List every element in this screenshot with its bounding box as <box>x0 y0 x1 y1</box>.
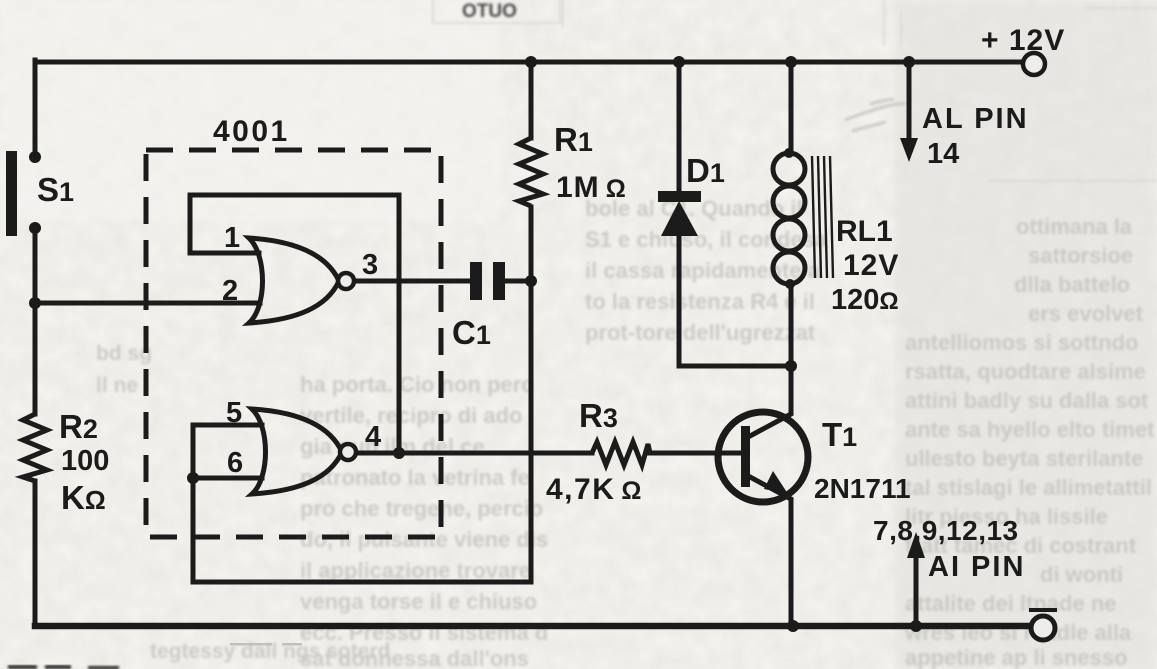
node RL1 top <box>785 56 797 68</box>
svg-text:1: 1 <box>224 222 240 254</box>
svg-text:ers evolvet: ers evolvet <box>1028 301 1144 326</box>
wire gate2 pin6 stub <box>193 476 262 481</box>
svg-text:ante sa hyello elto timet: ante sa hyello elto timet <box>905 417 1155 442</box>
wire left rail upper <box>33 60 38 153</box>
svg-text:ll ne: ll ne <box>96 374 138 397</box>
wire left rail lower <box>33 232 38 414</box>
relay RL1 coil <box>773 153 805 284</box>
svg-text:OTUO: OTUO <box>462 1 517 22</box>
capacitor C1 plates <box>470 262 505 300</box>
gate U1b output bubble <box>340 444 356 460</box>
resistor R3 zigzag <box>592 442 650 465</box>
wire feedback pin4 to pin1 <box>190 195 399 453</box>
node S1 to R2 <box>29 297 41 309</box>
svg-text:to la resistenza R4 e il: to la resistenza R4 e il <box>585 289 815 314</box>
smudge near AL PIN <box>845 99 905 131</box>
wire C1 to R1 node <box>504 279 531 284</box>
wire AL PIN 14 stem <box>907 62 912 140</box>
svg-text:il cassa rapidamente a: il cassa rapidamente a <box>585 258 821 283</box>
wire R3 to transistor base <box>648 451 743 456</box>
svg-text:2: 2 <box>222 275 238 307</box>
wire R1 top lead <box>529 62 534 138</box>
node AI pin rail <box>910 620 922 632</box>
transistor T1 body <box>718 412 808 502</box>
wire R1 bottom lead to node and down <box>529 207 534 582</box>
switch S1 contact dots <box>29 151 41 163</box>
svg-text:R3: R3 <box>579 397 618 434</box>
node AL pin top <box>903 56 915 68</box>
IC 4001 dashed box <box>146 150 441 537</box>
switch S1 bar <box>6 151 17 236</box>
svg-text:ha porta. Cio non perc: ha porta. Cio non perc <box>300 372 533 397</box>
faint top decorations <box>433 0 1157 181</box>
svg-text:antelliomos si sottndo: antelliomos si sottndo <box>905 330 1138 355</box>
svg-text:+ 12V: + 12V <box>981 24 1065 57</box>
svg-text:C1: C1 <box>452 314 491 351</box>
svg-text:il applicazione trovare: il applicazione trovare <box>300 558 531 583</box>
svg-text:prot-tore dell'ugrezzat: prot-tore dell'ugrezzat <box>585 320 816 345</box>
svg-text:4001: 4001 <box>213 115 290 148</box>
svg-text:appetine ap li snesso: appetine ap li snesso <box>905 645 1128 669</box>
wire AI PIN stem <box>914 556 919 626</box>
node R1 top <box>525 56 537 68</box>
svg-text:14: 14 <box>927 138 959 170</box>
svg-text:di wonti: di wonti <box>1040 562 1123 587</box>
svg-text:S1: S1 <box>37 171 74 208</box>
terminal minus bar <box>1031 608 1055 612</box>
wire gate2 pin5 stub <box>193 423 262 428</box>
node feedback tap <box>393 447 405 459</box>
wire up to gate2 inputs <box>191 425 196 582</box>
svg-text:dlla battelo: dlla battelo <box>1014 272 1130 297</box>
svg-text:venga torse il e chiuso: venga torse il e chiuso <box>300 589 537 614</box>
node C1-R1 <box>525 275 537 287</box>
wire gate2 output to R3 <box>355 451 592 456</box>
transistor T1 emitter arrow <box>764 471 788 494</box>
diode D1 <box>658 191 701 236</box>
svg-text:12V: 12V <box>843 249 899 282</box>
gate U1a output bubble <box>338 273 354 289</box>
terminal +12V <box>1023 53 1045 75</box>
svg-text:patronato la vetrina fe: patronato la vetrina fe <box>300 465 530 490</box>
svg-text:tal stislagi le allimetattil: tal stislagi le allimetattil <box>905 475 1152 500</box>
terminal bottom-right <box>1031 616 1055 640</box>
svg-text:5: 5 <box>226 397 242 429</box>
wire S1 to gate pin 2 <box>35 301 260 306</box>
svg-text:AI PIN: AI PIN <box>928 551 1025 583</box>
wire D1 bottom lead <box>677 234 682 366</box>
svg-text:attini badly su dalla sot: attini badly su dalla sot <box>905 388 1149 413</box>
svg-text:pro che tregene, percio: pro che tregene, percio <box>300 496 543 521</box>
wire D1 to collector node <box>679 364 791 369</box>
svg-text:KΩ: KΩ <box>61 479 106 516</box>
svg-text:S1 e chiuso, il condesa: S1 e chiuso, il condesa <box>585 227 828 252</box>
svg-text:ullesto beyta sterilante: ullesto beyta sterilante <box>905 446 1143 471</box>
svg-text:attalite dei ltnade ne: attalite dei ltnade ne <box>905 591 1117 616</box>
svg-text:vertile, recipro di ado: vertile, recipro di ado <box>300 403 523 428</box>
node gate2 inputs <box>187 472 199 484</box>
svg-text:RL1: RL1 <box>836 215 893 248</box>
bottom cut-off glyph tops <box>8 665 119 669</box>
wire gate1 output to C1 <box>353 279 471 284</box>
svg-text:1MΩ: 1MΩ <box>556 171 627 204</box>
wire relay bottom lead <box>789 284 794 366</box>
svg-text:T1: T1 <box>822 416 857 453</box>
arrow AI PIN <box>907 532 925 558</box>
resistor R2 zigzag <box>23 414 47 481</box>
wire emitter <box>750 477 791 626</box>
node D1 top <box>673 56 685 68</box>
NOR gate U1b <box>252 409 342 494</box>
svg-text:6: 6 <box>227 447 243 479</box>
svg-text:sattorsioe: sattorsioe <box>1028 243 1133 268</box>
wire bottom rail <box>35 623 1031 630</box>
svg-text:4,7KΩ: 4,7KΩ <box>546 473 643 506</box>
arrow AL PIN 14 <box>900 138 918 162</box>
wire timing node bottom run <box>193 580 531 585</box>
wire relay top lead <box>789 62 794 152</box>
node collector-D1 <box>785 360 797 372</box>
wire collector <box>750 366 791 436</box>
transistor T1 base bar <box>741 426 750 487</box>
wire left rail below R2 <box>33 481 38 626</box>
svg-text:3: 3 <box>362 249 378 281</box>
svg-text:R1: R1 <box>554 121 593 158</box>
svg-text:2N1711: 2N1711 <box>814 473 911 504</box>
svg-text:ottimana la: ottimana la <box>1016 214 1133 239</box>
svg-text:R2: R2 <box>59 408 98 445</box>
svg-text:D1: D1 <box>686 152 725 189</box>
svg-text:4: 4 <box>365 421 381 453</box>
node emitter-rail <box>787 620 799 632</box>
NOR gate U1a <box>249 238 339 323</box>
wire D1 top lead <box>677 62 682 193</box>
svg-text:7,8,9,12,13: 7,8,9,12,13 <box>873 515 1019 546</box>
resistor R1 zigzag <box>519 138 543 206</box>
svg-text:100: 100 <box>61 445 109 477</box>
svg-text:AL PIN: AL PIN <box>922 103 1029 135</box>
svg-text:120Ω: 120Ω <box>831 284 899 316</box>
relay core lines <box>812 156 833 278</box>
svg-text:rsatta, quodtare alsime: rsatta, quodtare alsime <box>905 359 1146 384</box>
wire top rail <box>35 60 1023 65</box>
